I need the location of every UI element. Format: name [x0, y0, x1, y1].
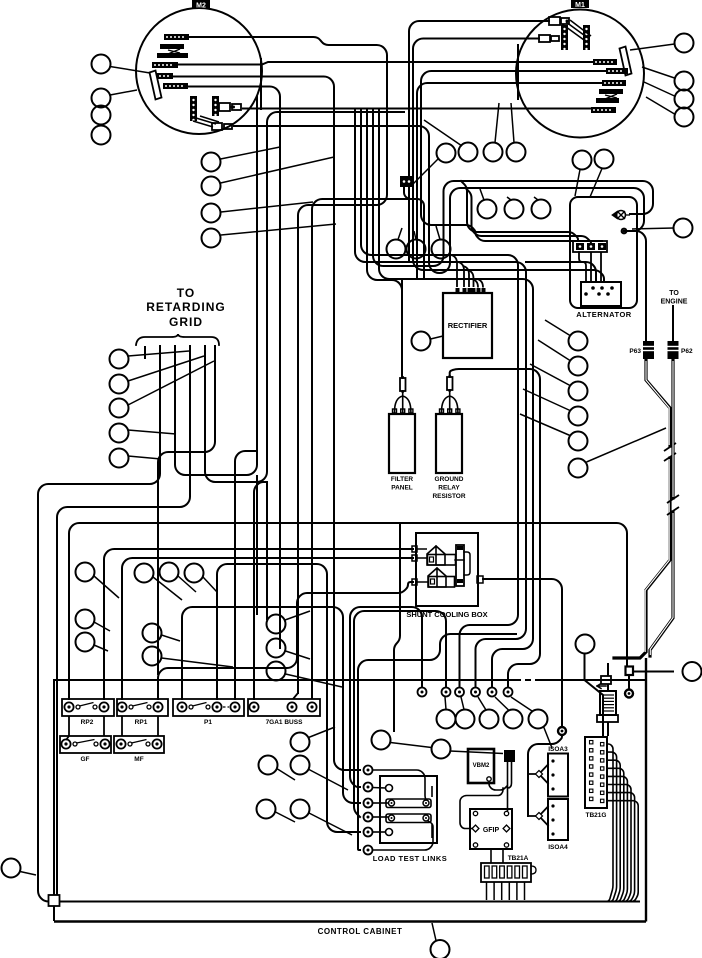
- rect circle leader 2: [414, 231, 416, 240]
- M1 brush lever: [620, 47, 632, 76]
- link circle lower: [386, 829, 393, 836]
- wire bus M2 connA to M1 blk6: [242, 108, 591, 110]
- link wire hex770 to bar1: [373, 770, 427, 800]
- label M1: [571, 0, 589, 9]
- TB21A comb: [481, 863, 536, 882]
- wire M1 blk3 drop: [417, 83, 602, 279]
- wire V267 lower: [266, 482, 268, 620]
- svg-text:7GA1 BUSS: 7GA1 BUSS: [266, 719, 304, 726]
- bus wire RP2-1 to black square: [69, 523, 627, 699]
- filter panel prong terminals: [393, 409, 413, 413]
- svg-text:RP1: RP1: [135, 719, 148, 726]
- link wire hex832: [373, 831, 386, 833]
- link wire hex803: [373, 802, 389, 804]
- leader lpa3: [309, 770, 348, 791]
- text GFIP: [483, 827, 500, 834]
- grid stub wire: [144, 346, 146, 359]
- wire 3term feed 2: [466, 188, 592, 244]
- filter panel fuse: [400, 376, 406, 393]
- wire bundle x518 to hex459: [361, 109, 518, 688]
- resistor component: [597, 691, 618, 722]
- wire RP1-1 to MF-1: [121, 716, 123, 736]
- leader ml2: [178, 576, 196, 592]
- grr feed wire: [450, 369, 540, 687]
- M1 crossover blocks: [596, 89, 623, 103]
- rcol leader 1: [545, 320, 570, 336]
- svg-text:CONTROL CABINET: CONTROL CABINET: [318, 927, 403, 936]
- svg-text:ISOA4: ISOA4: [548, 844, 568, 851]
- cabinet left edge: [53, 680, 55, 895]
- text ALTERNATOR: [576, 310, 631, 319]
- link hex850 chain: [358, 634, 516, 850]
- connector wires down: [508, 762, 512, 811]
- MF area circles: [143, 624, 162, 666]
- rect circle leader 3: [436, 226, 440, 240]
- svg-text:M2: M2: [196, 3, 206, 10]
- connector P63: [643, 341, 654, 359]
- right column callout circles: [569, 332, 588, 478]
- svg-text:ENGINE: ENGINE: [661, 299, 688, 306]
- wire 3term feed 1: [461, 181, 578, 241]
- M2 strip jumper wires: [193, 116, 219, 127]
- M2 terminal block 3: [152, 62, 178, 68]
- M1 terminal block 3: [602, 80, 626, 86]
- wire 7GA1-1 feed: [254, 482, 267, 699]
- fork ISOA4: [528, 807, 548, 826]
- link bar 2: [386, 814, 431, 823]
- terminal dot on enclosure: [621, 228, 628, 235]
- GFIP terminals: [472, 811, 510, 847]
- M1 connector A: [549, 17, 569, 25]
- link wire hex850 to bar2: [373, 821, 434, 850]
- leader lpa1: [309, 727, 336, 738]
- text GROUND RELAY RESISTOR: [432, 476, 465, 500]
- wire square to stud: [628, 675, 630, 689]
- text FILTER PANEL: [391, 476, 414, 492]
- corner callout circle: [2, 859, 21, 878]
- GFIP wires to comb: [491, 849, 503, 863]
- rcol leader 4: [523, 389, 570, 411]
- alt mid leader 2: [507, 197, 511, 200]
- rectifier box: [443, 293, 492, 358]
- alt top leader 1: [575, 170, 580, 197]
- wire grid W1 big loop: [38, 346, 639, 902]
- wire grid W3: [57, 346, 190, 899]
- leader m1r-4: [646, 97, 675, 114]
- terminal strip 7GA1 BUSS: [248, 699, 320, 726]
- hex leader 5: [511, 697, 532, 711]
- text TB21G: [586, 812, 607, 819]
- wire bundle x526 to hex475: [355, 109, 526, 688]
- lower pair circles B: [257, 800, 310, 819]
- link hex443 to hex817: [354, 611, 446, 817]
- TB21G fan wires: [560, 744, 638, 902]
- bottom hex terminals: [442, 688, 513, 697]
- connector P62: [668, 341, 679, 359]
- filter panel prongs: [395, 392, 411, 412]
- leader tm-2: [424, 120, 462, 146]
- wire M2 blk5 long drop: [188, 87, 280, 649]
- leader lpa2: [278, 769, 296, 780]
- svg-text:LOAD TEST LINKS: LOAD TEST LINKS: [373, 854, 448, 863]
- 3-terminal block: [573, 241, 607, 252]
- P62 break ticks: [667, 495, 679, 515]
- fork ISOA3: [528, 765, 548, 784]
- wire RP1-2 to MF-2: [157, 716, 159, 736]
- leader buss1: [285, 611, 310, 620]
- leader c2-4: [221, 224, 336, 235]
- text LOAD TEST LINKS: [373, 854, 448, 863]
- leader tm-4: [511, 103, 514, 143]
- svg-text:TB21A: TB21A: [508, 855, 529, 862]
- leader ml1: [153, 577, 182, 600]
- shunt element 1: [427, 546, 456, 565]
- M1 terminal block 6: [591, 107, 616, 113]
- alt mid callout circles: [478, 200, 551, 219]
- hex leader 3: [478, 697, 486, 710]
- M2 crossover blocks: [157, 44, 188, 58]
- M1 terminal block 1: [593, 59, 617, 65]
- svg-text:ALTERNATOR: ALTERNATOR: [576, 310, 631, 319]
- leader chain 1: [391, 743, 432, 748]
- wire M2 connB Z wrap: [234, 126, 644, 273]
- rectifier top pins: [456, 288, 486, 293]
- callout circles left of M2: [92, 55, 111, 145]
- VBM2 box: [468, 749, 494, 783]
- wire M2 blk3 to M1 blk1: [178, 62, 593, 65]
- wire block to alt 1: [579, 252, 586, 282]
- wire grid U1: [175, 97, 257, 475]
- grid leader 2: [128, 356, 204, 381]
- callout circles right of M1: [675, 34, 694, 127]
- text VBM2: [473, 763, 490, 769]
- grr box: [436, 414, 462, 473]
- grid leader 3: [128, 361, 214, 405]
- hex leader 4: [495, 697, 509, 711]
- wire bundle x533 to hex 492: [379, 109, 533, 688]
- text TO RETARDING GRID: [146, 286, 225, 329]
- leader tm-1: [413, 159, 438, 184]
- junction square: [626, 667, 634, 676]
- P63 break ticks: [664, 443, 676, 461]
- bottom callout circles row: [437, 710, 548, 729]
- callout circle right of alternator: [674, 219, 693, 238]
- ground stud: [625, 690, 633, 698]
- ISOA4 box: [548, 799, 568, 840]
- leader to M2 lever: [110, 67, 150, 74]
- grid callout circles: [110, 350, 129, 468]
- wire stud to forks: [528, 735, 562, 816]
- svg-text:GFIP: GFIP: [483, 827, 500, 834]
- leader: [94, 576, 119, 598]
- wire M1 connB to alternator: [413, 39, 604, 283]
- wire block to alt 3: [600, 252, 602, 282]
- shunt cooling box: [416, 533, 478, 606]
- terminal strip RP2: [62, 699, 114, 726]
- wire P1-2 feed: [217, 564, 360, 832]
- alternator box: [581, 282, 621, 306]
- callout circles above: [372, 731, 451, 759]
- wire alternator feed 1: [526, 262, 596, 282]
- text RECTIFIER: [448, 321, 488, 330]
- shunt internal wires: [417, 549, 470, 582]
- svg-text:P1: P1: [204, 719, 212, 726]
- callout circles column 2: [202, 153, 221, 248]
- svg-text:RESISTOR: RESISTOR: [432, 493, 465, 500]
- M1 internal chord wire: [517, 44, 519, 100]
- shunt right terminal: [477, 576, 483, 583]
- wire M2 blk4 to hex770: [173, 77, 360, 771]
- wire RP2-2 to shunt: [104, 549, 413, 699]
- leader mf2: [162, 658, 234, 667]
- leader to M2 edge: [110, 90, 137, 95]
- leader mf1: [162, 635, 181, 641]
- text P63: [629, 348, 641, 355]
- brace over grid wires: [136, 334, 219, 345]
- M1 terminal block 2: [606, 68, 628, 74]
- fan symbol: [612, 211, 630, 220]
- alt top leader 2: [590, 169, 602, 198]
- link wire hex817: [373, 816, 389, 818]
- leader chain 2: [450, 751, 503, 754]
- lower pair circles A: [259, 733, 310, 775]
- alt top callout circles: [573, 150, 614, 170]
- terminal strip MF: [114, 736, 164, 763]
- bundle connector: [400, 176, 413, 187]
- M2 vertical strip 2: [212, 96, 219, 116]
- load test hex terminals: [364, 766, 373, 855]
- leader c2-3: [221, 202, 313, 212]
- svg-text:FILTER: FILTER: [391, 476, 414, 483]
- alternator enclosure: [570, 197, 637, 308]
- VBM2 terminal: [487, 777, 491, 781]
- rcol leader 5: [520, 414, 570, 436]
- wire brace x215 to RP1-2: [158, 346, 215, 674]
- svg-text:P63: P63: [629, 348, 641, 355]
- motor M2 outline: [136, 8, 262, 134]
- shunt element 2: [428, 568, 455, 587]
- wire P1-3 feed: [235, 451, 257, 699]
- M2 terminal block 1: [164, 34, 189, 40]
- GFIP left wire: [460, 788, 503, 829]
- M2 brush lever: [150, 71, 162, 100]
- ISOA3 box: [548, 754, 568, 797]
- svg-text:RECTIFIER: RECTIFIER: [448, 321, 488, 330]
- ISOA3 top leader: [544, 727, 553, 749]
- leader M1 lever to circle: [630, 44, 675, 50]
- text TB21A: [508, 855, 529, 862]
- black connector square: [504, 750, 515, 762]
- buss callout circles: [267, 615, 286, 681]
- TB21G box: [585, 737, 607, 808]
- shunt left terminals: [412, 546, 417, 585]
- link wire hex787: [373, 787, 386, 790]
- wire 7GA1-3 terminal: [311, 693, 313, 699]
- leader tm-3: [495, 103, 499, 143]
- svg-text:RELAY: RELAY: [438, 485, 460, 492]
- filter panel riser wire: [401, 280, 403, 377]
- wire M2 blk1 to 7GA1-2: [189, 37, 387, 693]
- terminal strip RP1: [117, 699, 168, 726]
- text TO ENGINE: [661, 290, 688, 306]
- wire y199 to 7GA1-3: [312, 199, 409, 693]
- grr prongs: [442, 391, 458, 412]
- rcol leader 3: [530, 364, 570, 386]
- M2 terminal block 5: [163, 83, 188, 89]
- filter panel box: [389, 414, 415, 473]
- stud terminal: [558, 727, 566, 735]
- wire grid U2: [205, 112, 404, 482]
- grid leader 4: [128, 430, 176, 434]
- leader to right circle: [632, 228, 674, 229]
- white square feedthrough: [601, 676, 611, 684]
- text CONTROL CABINET: [318, 927, 403, 936]
- wire M2 stub x261: [260, 58, 262, 110]
- leader ml3: [203, 577, 217, 592]
- alt mid leader 1: [480, 189, 484, 200]
- outer bottom line: [54, 920, 646, 922]
- mid-left circles row: [135, 563, 204, 583]
- leader gf1: [94, 622, 110, 631]
- wire connector tail: [404, 186, 424, 279]
- GF area circles: [76, 610, 95, 652]
- svg-text:MF: MF: [134, 756, 143, 763]
- text SHUNT COOLING BOX: [406, 610, 487, 619]
- link inner bracket: [431, 786, 433, 838]
- hex leader 1: [445, 697, 446, 710]
- wire square to circle: [633, 671, 674, 673]
- M2 vertical strip 1: [190, 96, 197, 121]
- text ISOA3: [548, 746, 568, 753]
- leader lpb2: [309, 813, 352, 835]
- corner leader: [20, 872, 36, 876]
- M2 connector A: [219, 103, 241, 111]
- svg-text:TO: TO: [669, 290, 679, 297]
- wire RP2-1 to GF-1: [66, 716, 69, 740]
- leader gf2: [94, 645, 108, 651]
- wire 7GA1-2 terminal: [293, 693, 298, 699]
- svg-text:GRID: GRID: [169, 315, 203, 329]
- cabinet drop to outer: [53, 906, 55, 921]
- text ISOA4: [548, 844, 568, 851]
- load test links box: [380, 776, 437, 843]
- rect circle leader 1: [398, 228, 402, 240]
- alternator pins: [584, 286, 614, 296]
- callout circle x85 y572: [76, 563, 95, 582]
- svg-text:TO: TO: [177, 286, 195, 300]
- alt mid leader 3: [534, 197, 538, 200]
- callout circle right edge: [683, 662, 702, 681]
- cabinet right edge: [645, 658, 647, 922]
- wire M1 connA drop: [409, 21, 549, 262]
- text P62: [681, 348, 693, 355]
- leader buss3: [286, 674, 343, 687]
- leader m1r-2: [642, 67, 675, 78]
- grid leader 5: [128, 456, 161, 459]
- motor M1 outline: [516, 10, 644, 138]
- rectifier pin curls: [451, 255, 484, 288]
- wire Z1 wrap to fan: [373, 109, 653, 267]
- TB21A wires down: [487, 882, 525, 900]
- bottom leader: [432, 923, 436, 941]
- M1 strip jumper wires: [562, 20, 591, 40]
- rcol leader 2: [538, 340, 570, 361]
- rectifier leader: [431, 336, 444, 339]
- M1 vertical strip 1: [561, 25, 568, 50]
- TB21G terminals: [590, 741, 604, 803]
- leader c2-1: [221, 147, 281, 159]
- svg-text:PANEL: PANEL: [391, 485, 413, 492]
- svg-text:VBM2: VBM2: [473, 763, 490, 769]
- leader lpb1: [276, 812, 296, 822]
- wire V257 lower: [256, 475, 258, 615]
- M2 terminal block 4: [153, 73, 173, 79]
- hex terminal 422: [418, 688, 427, 697]
- wire RP1-1 to shunt: [122, 558, 413, 699]
- VBM2 wire to junction: [489, 782, 507, 791]
- link hex422 to hex787: [350, 607, 422, 787]
- M2 connector B: [212, 123, 232, 130]
- M1 connector B: [539, 35, 559, 42]
- svg-text:ISOA3: ISOA3: [548, 746, 568, 753]
- rcol leader 6 to break: [587, 428, 667, 462]
- callout circles top middle: [437, 143, 526, 163]
- svg-text:RETARDING: RETARDING: [146, 300, 225, 314]
- svg-text:M1: M1: [575, 2, 585, 9]
- M1 vertical strip 2: [583, 25, 590, 50]
- wire P1-1 feed: [182, 607, 360, 803]
- rectifier top callout circles: [387, 240, 451, 259]
- leader buss2: [286, 651, 311, 659]
- grid leader 1: [128, 351, 189, 356]
- filter panel feed wire: [367, 110, 402, 376]
- cabinet corner square: [49, 895, 60, 906]
- svg-text:GROUND: GROUND: [435, 476, 464, 483]
- hex leader 2: [461, 697, 464, 710]
- bottom callout circle: [431, 940, 450, 958]
- svg-text:P62: P62: [681, 348, 693, 355]
- wire circle to TB21G: [585, 654, 604, 737]
- wire bus drop x400: [394, 523, 400, 731]
- wire shunt to stud chain: [483, 579, 562, 727]
- cabinet top edge: [54, 679, 646, 681]
- wire RP1-2 to shunt: [158, 582, 413, 699]
- arrow annotation: [597, 684, 606, 689]
- link bar 1: [386, 799, 431, 808]
- P62 wire lower: [650, 359, 673, 656]
- svg-text:TB21G: TB21G: [586, 812, 607, 819]
- P63 wire lower: [608, 359, 670, 691]
- callout circle above TB21G: [576, 635, 595, 654]
- wire RP2-2 to GF-2: [103, 716, 105, 736]
- P63 wire from enclosure: [624, 231, 646, 341]
- leader m1r-3: [644, 82, 675, 96]
- rectifier callout circle: [412, 332, 431, 351]
- svg-text:RP2: RP2: [81, 719, 94, 726]
- terminal strip P1: [173, 699, 244, 726]
- label M2: [192, 0, 210, 10]
- P62 wire upper: [672, 305, 674, 342]
- svg-text:GF: GF: [80, 756, 89, 763]
- leader c2-2: [221, 157, 335, 183]
- shunt center bar: [456, 545, 464, 586]
- grr prong terminals: [440, 409, 460, 413]
- terminal strip GF: [60, 736, 111, 763]
- GFIP box: [470, 809, 512, 849]
- resistor to TB21G wire: [607, 722, 609, 736]
- link circle upper: [386, 785, 393, 792]
- wire M1 blk2 to 3term-3: [421, 71, 606, 241]
